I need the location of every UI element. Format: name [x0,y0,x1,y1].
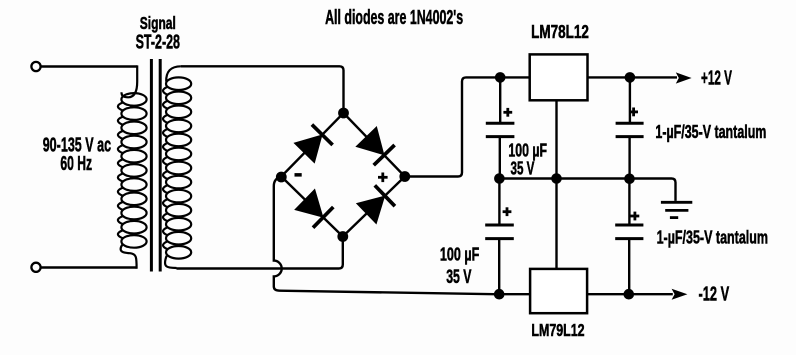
svg-text:All diodes are 1N4002's: All diodes are 1N4002's [325,7,463,29]
wire LM79 output to -12 arrow [587,293,673,295]
svg-text:60 Hz: 60 Hz [60,152,92,175]
label LM79L12 [531,320,584,340]
svg-text:1-µF/35-V tantalum: 1-µF/35-V tantalum [655,121,766,142]
diode D2 (top to right) [356,127,394,165]
capacitor C4 plates [615,225,643,239]
transformer core bar left [150,59,153,272]
ground symbol [661,202,692,217]
capacitor C1 100uF plates [486,123,515,136]
label tantalum upper [655,121,766,142]
wire LM78 ground pin [555,100,557,178]
capacitor C1 100uF plus [503,108,512,117]
diode D1 (left to top) [294,125,332,163]
label 35 V upper [511,157,535,178]
bridge edge bottom-right [343,177,405,237]
bridge node bottom [337,231,348,242]
node ground rail / C3-C4 [624,174,635,185]
svg-text:35 V: 35 V [446,267,471,288]
node +12 rail / C1 [495,72,506,83]
wire LM78 output to +12 arrow [588,76,678,78]
input terminal bottom-left [31,263,40,272]
label -12 V [699,284,730,306]
wire C3 to ground rail [628,137,630,179]
svg-text:+12 V: +12 V [701,67,732,89]
label 100 uF lower [440,244,479,265]
bridge node left [276,172,287,183]
input terminal top-left [31,62,40,71]
wire top input [41,65,138,67]
+12V arrowhead [676,72,692,83]
capacitor C4 1uF tantalum plus [631,212,640,221]
svg-text:ST-2-28: ST-2-28 [136,32,180,54]
regulator U1 LM78L12 box [530,54,588,100]
svg-text:LM79L12: LM79L12 [531,320,584,340]
label 60 Hz [60,152,92,175]
wire secondary bottom to bridge bottom [177,237,343,269]
wire ground rail to C4 [628,179,630,226]
wire bridge minus down with hop to -12 rail [274,177,530,295]
capacitor C2 100uF plus [503,207,512,216]
svg-text:Signal: Signal [140,13,176,33]
label Signal [140,13,176,33]
wire bridge plus to +12 rail [405,77,530,176]
node ground rail / C1-C2 [494,173,505,184]
wire LM79 ground pin [555,179,557,269]
regulator U2 LM79L12 box [530,269,587,313]
node +12 rail / C3 [625,72,636,83]
label 35 V lower [446,267,471,288]
label 100 uF upper [508,139,547,160]
capacitor C3 plates [616,123,644,136]
bridge edge left-bottom [281,177,343,237]
label ST-2-28 [136,32,180,54]
svg-text:LM78L12: LM78L12 [531,21,589,42]
bridge edge left-top [281,113,343,177]
diode D3 (left to bottom) [295,190,333,228]
transformer T1 secondary winding [163,66,191,268]
wire secondary top to bridge [181,66,344,113]
bridge node right [399,171,410,182]
wire C2 to -12 rail [498,239,500,295]
bridge edge top-right [344,113,405,177]
node -12 rail / C4 [624,289,635,300]
bridge plus label [378,173,388,183]
label 90-135 V ac [43,133,111,156]
label tantalum lower [657,227,768,248]
wire +12 rail to C3 [629,77,631,122]
capacitor C3 1uF tantalum plus [629,108,638,117]
bridge minus label [295,173,302,177]
label LM78L12 [531,21,589,42]
-12V arrowhead [672,289,688,300]
node ground rail / regulators [551,173,562,184]
capacitor C2 100uF plates [485,225,514,239]
svg-text:35 V: 35 V [511,157,535,178]
wire ground rail to C2 [498,179,500,226]
bridge node top [338,108,349,119]
transformer T1 primary winding [118,65,147,268]
wire bottom input [41,266,137,268]
ground rail [499,179,675,201]
label All diodes are 1N4002's [325,7,463,29]
wire C1 to ground rail [499,137,501,179]
svg-text:100 µF: 100 µF [440,244,479,265]
svg-text:1-µF/35-V tantalum: 1-µF/35-V tantalum [657,227,768,248]
wire +12 rail to C1 [499,77,501,122]
wire C4 to -12 rail [628,239,630,295]
label +12 V [701,67,732,89]
transformer core bar right [159,59,162,272]
diode D4 (bottom to right) [357,185,395,223]
svg-text:-12 V: -12 V [699,284,730,306]
node -12 rail / C2 [494,289,505,300]
